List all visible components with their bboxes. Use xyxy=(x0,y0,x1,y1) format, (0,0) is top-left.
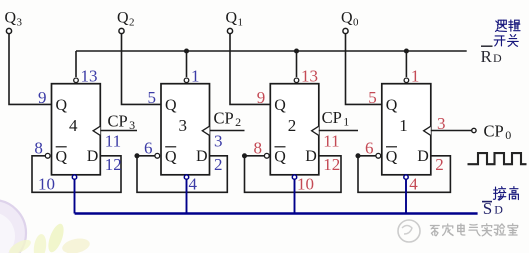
svg-text:1: 1 xyxy=(411,67,420,86)
wire FF1 Qbar pin 6 to junction node xyxy=(358,155,376,157)
svg-text:Q: Q xyxy=(165,97,177,114)
pin 12 label (D input of FF4) xyxy=(105,155,122,174)
label connect-high Chinese text (jie gao) xyxy=(493,187,518,201)
pin 5 label (Q output of FF1) xyxy=(368,88,377,107)
inverting bubble on reset pin of FF1 xyxy=(404,78,409,83)
svg-text:3: 3 xyxy=(17,16,23,28)
svg-text:Q: Q xyxy=(274,97,286,114)
wire RD line drop to FF2 reset pin 13 xyxy=(296,51,298,77)
svg-text:1: 1 xyxy=(343,115,349,129)
inverting bubble Qbar output pin 8 of FF2 xyxy=(264,153,269,158)
decorative watermark blobs bottom-left xyxy=(0,199,91,253)
svg-text:Q: Q xyxy=(226,9,238,26)
pin 1 label (reset input of FF3) xyxy=(191,67,200,86)
svg-text:D: D xyxy=(417,148,429,165)
inverting bubble on reset pin of FF4 xyxy=(74,78,79,83)
pin 6 label (Qbar output of FF3) xyxy=(144,138,153,157)
inverting bubble Qbar output pin 6 of FF1 xyxy=(376,153,381,158)
svg-text:13: 13 xyxy=(81,67,98,86)
svg-text:9: 9 xyxy=(38,88,47,107)
svg-text:2: 2 xyxy=(435,155,444,174)
wire FF1 Qbar toggle loop to own D pin 2 xyxy=(358,156,450,193)
label logic switch Chinese text (luoji kaiguan) xyxy=(494,20,520,46)
wire RD line drop to FF4 reset pin 13 xyxy=(75,51,77,77)
inverting bubble preset pin 4 of FF3 (blue) xyxy=(184,175,188,179)
svg-text:12: 12 xyxy=(105,155,122,174)
svg-text:Q: Q xyxy=(56,148,68,165)
label CP3 xyxy=(108,112,136,133)
svg-text:5: 5 xyxy=(148,88,157,107)
svg-text:9: 9 xyxy=(257,88,266,107)
pin 13 label (reset input of FF4) xyxy=(81,67,98,86)
junction node FF3 Qbar xyxy=(134,153,139,158)
D flip-flop FF3 (74LS74 half) box with Q, Qbar, D labels and clock edge triangle xyxy=(161,84,210,175)
svg-text:2: 2 xyxy=(129,16,135,28)
pin 3 label (clock input of FF1) xyxy=(437,114,446,133)
wire FF4 Qbar pin 8 to FF4 D pin 12 (toggle loop) xyxy=(32,156,121,193)
svg-text:2: 2 xyxy=(235,115,241,129)
svg-text:CP: CP xyxy=(214,109,234,128)
svg-text:1: 1 xyxy=(399,116,408,135)
wire FF2 Qbar pin 8 to junction node xyxy=(245,155,265,157)
svg-text:13: 13 xyxy=(301,67,318,86)
svg-text:5: 5 xyxy=(368,88,377,107)
wire Q2 terminal to FF3 Q output pin 5 xyxy=(122,34,162,105)
svg-text:Q: Q xyxy=(5,9,17,26)
svg-text:11: 11 xyxy=(105,132,121,151)
label CP1 xyxy=(322,108,350,129)
wire FF1 clock pin 3 to CP0 terminal xyxy=(431,130,472,132)
inverting bubble preset pin 10 of FF2 (blue) xyxy=(292,175,296,179)
svg-text:CP: CP xyxy=(108,112,128,131)
pin 1 label (reset input of FF1) xyxy=(411,67,420,86)
svg-text:Q: Q xyxy=(56,97,68,114)
wire Q3 terminal to FF4 Q output pin 9 xyxy=(9,34,52,105)
pin 12 label (D input of FF2) xyxy=(323,155,340,174)
svg-text:4: 4 xyxy=(409,174,418,193)
svg-text:2: 2 xyxy=(288,116,297,135)
svg-text:3: 3 xyxy=(179,116,188,135)
junction on RD line at FF3 drop xyxy=(184,48,189,53)
pin 4 label (preset input of FF1) xyxy=(409,174,418,193)
wire FF3 preset pin 4 down to SD bus (blue) xyxy=(186,179,188,213)
pin 8 label (Qbar output of FF2) xyxy=(254,138,263,157)
pin 2 label (D input of FF3) xyxy=(214,155,223,174)
svg-text:D: D xyxy=(494,203,503,217)
pin 10 label (preset input of FF4) xyxy=(38,174,55,193)
wire FF1 preset pin 4 down to SD bus (blue) xyxy=(405,179,407,213)
wire RD line drop to FF1 reset pin 1 xyxy=(405,51,407,77)
inverting bubble on reset pin of FF3 xyxy=(184,78,189,83)
svg-text:6: 6 xyxy=(144,138,153,157)
watermark Chinese text (dongnong dianqi shiyanshi) xyxy=(430,224,517,236)
pin 2 label (D input of FF1) xyxy=(435,155,444,174)
svg-text:8: 8 xyxy=(254,138,263,157)
svg-text:D: D xyxy=(196,148,208,165)
svg-text:Q: Q xyxy=(165,148,177,165)
svg-text:10: 10 xyxy=(38,174,55,193)
svg-text:10: 10 xyxy=(297,174,314,193)
wire CP3 net from FF3 Qbar junction to FF4 clock input xyxy=(100,130,137,132)
svg-text:2: 2 xyxy=(214,155,223,174)
svg-text:D: D xyxy=(305,148,317,165)
wire FF4 preset pin 10 down to SD bus (blue) xyxy=(74,179,76,213)
inverting bubble Qbar output pin 6 of FF3 xyxy=(155,153,160,158)
svg-text:D: D xyxy=(87,148,99,165)
svg-text:11: 11 xyxy=(323,132,339,151)
svg-text:1: 1 xyxy=(191,67,200,86)
pin 13 label (reset input of FF2) xyxy=(301,67,318,86)
D flip-flop FF1 (74LS74 half) box with Q, Qbar, D labels and clock edge triangle xyxy=(382,84,431,175)
pin 8 label (Qbar output of FF4) xyxy=(34,138,43,157)
D flip-flop FF4 (74LS74 half) box with Q, Qbar, D labels and clock edge triangle xyxy=(52,84,101,175)
svg-text:Q: Q xyxy=(386,148,398,165)
terminal Q0 (output of FF1) xyxy=(341,9,359,33)
terminal Q2 (output of FF3) xyxy=(117,9,135,33)
label CP0 xyxy=(484,121,512,142)
terminal Q3 (output of FF4) xyxy=(5,9,23,33)
wire CP2 net from FF2 Qbar junction to FF3 clock input xyxy=(210,130,245,132)
junction node FF1 Qbar xyxy=(355,153,360,158)
pin 10 label (preset input of FF2) xyxy=(297,174,314,193)
svg-text:6: 6 xyxy=(365,138,374,157)
junction node FF2 Qbar xyxy=(242,153,247,158)
wire Q0 terminal to FF1 Q output pin 5 xyxy=(346,34,382,105)
wire FF3 Qbar toggle loop to own D pin 2 xyxy=(137,156,227,193)
wire FF3 Qbar pin 6 to junction node xyxy=(137,155,155,157)
pin 6 label (Qbar output of FF1) xyxy=(365,138,374,157)
label CP2 xyxy=(214,109,242,130)
svg-text:0: 0 xyxy=(353,16,359,28)
svg-text:Q: Q xyxy=(386,97,398,114)
junction on RD line at FF1 drop xyxy=(404,48,409,53)
pin 3 label (clock input of FF3) xyxy=(214,132,223,151)
svg-text:Q: Q xyxy=(341,9,353,26)
wire common SD bus line (blue) xyxy=(75,212,478,214)
pin 9 label (Q output of FF4) xyxy=(38,88,47,107)
svg-text:Q: Q xyxy=(274,148,286,165)
junction on RD line at FF2 drop xyxy=(294,48,299,53)
svg-text:4: 4 xyxy=(189,174,198,193)
wire Q1 terminal to FF2 Q output pin 9 xyxy=(230,34,270,105)
D flip-flop FF2 (74LS74 half) box with Q, Qbar, D labels and clock edge triangle xyxy=(270,84,319,175)
pin 4 label (preset input of FF3) xyxy=(189,174,198,193)
pin 5 label (Q output of FF3) xyxy=(148,88,157,107)
label RD with overline (reset, to logic switch) xyxy=(481,46,503,66)
pin 11 label (clock input of FF2) xyxy=(323,132,339,151)
wire FF2 Qbar toggle loop to own D pin 12 xyxy=(245,156,342,193)
svg-text:12: 12 xyxy=(323,155,340,174)
svg-text:CP: CP xyxy=(484,121,504,140)
inverting bubble preset pin 4 of FF1 (blue) xyxy=(404,175,408,179)
wire common direct-reset RD line xyxy=(76,50,467,52)
svg-text:3: 3 xyxy=(129,118,135,132)
label SD with overline (preset) xyxy=(482,199,503,218)
wire RD line drop to FF3 reset pin 1 xyxy=(186,51,188,77)
svg-text:R: R xyxy=(481,47,493,66)
svg-text:CP: CP xyxy=(322,108,342,127)
svg-text:3: 3 xyxy=(214,132,223,151)
wire CP1 net from FF1 Qbar junction to FF2 clock input xyxy=(319,130,358,132)
terminal CP0 (external clock input) xyxy=(472,128,476,132)
svg-text:3: 3 xyxy=(437,114,446,133)
svg-text:D: D xyxy=(493,51,502,65)
inverting bubble on reset pin of FF2 xyxy=(294,78,299,83)
inverting bubble preset pin 10 of FF4 (blue) xyxy=(72,175,76,179)
inverting bubble Qbar output pin 8 of FF4 xyxy=(45,153,50,158)
svg-text:1: 1 xyxy=(238,16,244,28)
svg-text:0: 0 xyxy=(505,128,511,142)
wire FF2 preset pin 10 down to SD bus (blue) xyxy=(294,179,296,213)
svg-text:Q: Q xyxy=(117,9,129,26)
clock waveform symbol (pulse train) xyxy=(468,153,527,164)
terminal Q1 (output of FF2) xyxy=(226,9,244,33)
svg-text:4: 4 xyxy=(69,116,78,135)
watermark logo circle xyxy=(398,220,420,242)
pin 11 label (clock input of FF4) xyxy=(105,132,121,151)
pin 9 label (Q output of FF2) xyxy=(257,88,266,107)
svg-text:8: 8 xyxy=(34,138,43,157)
